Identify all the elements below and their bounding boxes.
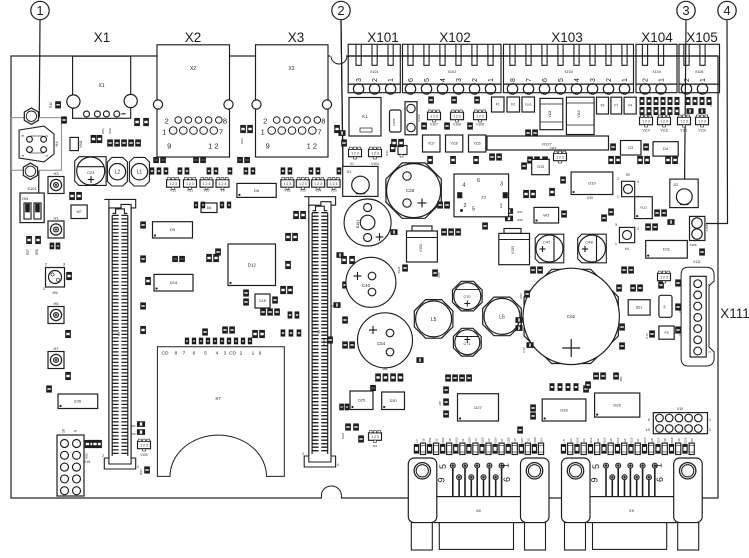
svg-text:X5: X5 [317, 330, 321, 334]
svg-text:R2: R2 [626, 173, 630, 177]
svg-text:X15: X15 [84, 460, 90, 464]
svg-text:V123: V123 [537, 165, 545, 169]
svg-text:D27: D27 [474, 405, 482, 410]
svg-text:1: 1 [488, 78, 495, 82]
svg-text:R103: R103 [454, 437, 458, 445]
svg-text:1 2 3: 1 2 3 [203, 182, 211, 186]
svg-text:D9: D9 [170, 227, 176, 232]
svg-text:5: 5 [591, 464, 601, 469]
svg-text:L6: L6 [499, 314, 505, 320]
svg-text:10: 10 [62, 429, 66, 433]
svg-text:V152: V152 [419, 244, 423, 252]
svg-text:C84: C84 [540, 438, 544, 444]
svg-text:1 2 3: 1 2 3 [169, 182, 177, 186]
svg-text:9: 9 [436, 477, 446, 482]
svg-text:R89: R89 [383, 367, 388, 371]
svg-text:3: 3 [682, 3, 689, 18]
svg-text:W7: W7 [76, 210, 81, 214]
svg-text:C54: C54 [377, 341, 386, 346]
svg-text:R105: R105 [507, 437, 511, 445]
svg-text:C70: C70 [464, 295, 471, 299]
svg-text:C72: C72 [522, 347, 526, 353]
svg-text:1 2 3: 1 2 3 [351, 152, 359, 156]
svg-text:F13: F13 [474, 438, 478, 444]
svg-text:V119: V119 [642, 129, 649, 133]
svg-text:X1: X1 [99, 83, 105, 89]
svg-text:4: 4 [337, 463, 339, 467]
svg-text:L1: L1 [137, 170, 143, 176]
svg-text:V153: V153 [511, 246, 515, 254]
svg-text:F29: F29 [663, 438, 667, 444]
svg-text:2: 2 [102, 454, 104, 458]
svg-text:V118: V118 [660, 129, 667, 133]
svg-text:1: 1 [162, 128, 166, 137]
svg-text:V120: V120 [698, 129, 706, 133]
svg-text:X3: X3 [288, 66, 294, 72]
svg-text:V901: V901 [79, 140, 83, 148]
svg-text:X1: X1 [94, 30, 111, 45]
svg-text:4: 4 [574, 78, 581, 82]
svg-text:X105: X105 [689, 243, 696, 247]
svg-text:1 2: 1 2 [307, 142, 317, 151]
svg-text:F14: F14 [487, 438, 491, 444]
svg-text:C47: C47 [543, 240, 551, 245]
svg-text:X3: X3 [288, 30, 305, 45]
svg-text:7: 7 [317, 128, 321, 137]
svg-text:9: 9 [259, 351, 262, 357]
svg-text:F1: F1 [496, 103, 500, 107]
svg-text:1: 1 [615, 242, 617, 246]
svg-text:V13: V13 [331, 189, 337, 193]
svg-text:R30: R30 [108, 128, 112, 134]
svg-text:H4: H4 [625, 247, 629, 251]
svg-text:V111: V111 [548, 110, 552, 117]
svg-text:3: 3 [456, 78, 463, 82]
svg-text:C28: C28 [406, 188, 415, 193]
svg-text:X103: X103 [551, 30, 583, 45]
svg-text:F28: F28 [650, 438, 654, 444]
svg-text:R109: R109 [533, 437, 537, 445]
svg-text:2: 2 [372, 78, 379, 82]
svg-text:R102: R102 [441, 437, 445, 445]
svg-text:D19: D19 [587, 196, 593, 200]
svg-text:1: 1 [388, 78, 395, 82]
svg-text:V117: V117 [428, 142, 435, 146]
svg-text:1 2: 1 2 [208, 142, 218, 151]
svg-text:W3: W3 [543, 213, 550, 218]
svg-text:1 2 3: 1 2 3 [371, 152, 379, 156]
svg-text:L2: L2 [115, 170, 121, 176]
svg-text:L8: L8 [562, 439, 566, 443]
svg-text:7: 7 [183, 351, 186, 357]
svg-text:V8: V8 [663, 305, 667, 309]
svg-text:X9: X9 [629, 508, 635, 513]
svg-text:1 2 3: 1 2 3 [680, 120, 688, 124]
svg-text:F25: F25 [609, 438, 613, 444]
svg-text:ON: ON [22, 196, 28, 201]
svg-text:1: 1 [252, 351, 255, 357]
svg-text:X111: X111 [693, 260, 701, 264]
svg-text:1: 1 [659, 78, 666, 82]
svg-text:4: 4 [462, 183, 465, 189]
svg-text:R104: R104 [467, 437, 471, 445]
svg-text:7: 7 [526, 78, 533, 82]
svg-text:D25: D25 [358, 399, 365, 403]
svg-text:F15: F15 [422, 438, 426, 444]
svg-text:2: 2 [302, 452, 304, 456]
svg-text:1 2 3: 1 2 3 [430, 115, 438, 119]
svg-text:C40: C40 [362, 283, 371, 288]
svg-text:R57: R57 [26, 249, 30, 255]
svg-text:R126: R126 [417, 114, 421, 122]
svg-text:R125: R125 [341, 432, 345, 439]
svg-text:B101: B101 [356, 220, 360, 228]
svg-text:C71: C71 [464, 342, 471, 346]
svg-text:X103: X103 [564, 70, 572, 74]
svg-text:1: 1 [500, 463, 510, 468]
svg-text:F2: F2 [511, 103, 515, 107]
svg-text:V104: V104 [371, 162, 379, 166]
svg-text:A150: A150 [322, 338, 326, 345]
svg-text:1 2 3: 1 2 3 [642, 120, 650, 124]
svg-text:F11: F11 [461, 438, 465, 443]
svg-text:S1: S1 [347, 169, 353, 174]
svg-text:9: 9 [74, 430, 78, 432]
svg-text:F3: F3 [664, 331, 668, 335]
svg-text:8: 8 [223, 117, 227, 126]
svg-text:X2: X2 [185, 30, 202, 45]
svg-text:1: 1 [617, 195, 619, 199]
svg-text:X105: X105 [686, 30, 718, 45]
svg-text:X104: X104 [641, 30, 673, 45]
svg-text:X8: X8 [476, 508, 482, 513]
svg-text:1 2 3: 1 2 3 [698, 120, 706, 124]
svg-text:1 2 3: 1 2 3 [660, 120, 668, 124]
svg-text:R156: R156 [494, 437, 498, 445]
svg-text:H1: H1 [53, 216, 59, 221]
svg-text:V51: V51 [187, 189, 193, 193]
svg-text:V122: V122 [640, 206, 647, 210]
svg-text:D30: D30 [390, 399, 397, 403]
svg-text:X102: X102 [439, 30, 471, 45]
svg-text:F24: F24 [582, 438, 586, 444]
svg-text:R114: R114 [616, 437, 620, 444]
svg-text:R116: R116 [643, 437, 647, 444]
svg-text:C23: C23 [87, 170, 95, 175]
svg-text:5: 5 [204, 351, 207, 357]
svg-text:X7: X7 [215, 396, 221, 401]
svg-text:6: 6 [408, 78, 415, 82]
svg-text:X105: X105 [695, 70, 703, 74]
svg-text:V1: V1 [350, 162, 354, 166]
svg-text:9: 9 [167, 142, 171, 151]
svg-text:R112: R112 [589, 437, 593, 444]
svg-text:R97: R97 [139, 469, 143, 475]
svg-text:R110: R110 [576, 437, 580, 444]
svg-text:R118: R118 [670, 437, 674, 444]
svg-text:5: 5 [558, 78, 565, 82]
svg-text:1: 1 [36, 3, 43, 18]
svg-text:C90: C90 [130, 432, 136, 436]
svg-text:R15: R15 [49, 102, 53, 108]
svg-text:H6: H6 [53, 301, 59, 306]
svg-text:1 2 3: 1 2 3 [299, 182, 307, 186]
svg-text:F4: F4 [628, 104, 632, 108]
svg-text:F103: F103 [525, 103, 532, 107]
svg-text:F23: F23 [569, 438, 573, 444]
svg-text:1 2 3: 1 2 3 [186, 182, 194, 186]
svg-text:V121: V121 [680, 129, 688, 133]
svg-text:R56: R56 [35, 249, 39, 255]
svg-text:R107: R107 [520, 437, 524, 445]
svg-text:R91: R91 [130, 424, 136, 428]
svg-text:D28: D28 [560, 407, 568, 412]
svg-text:S2: S2 [674, 182, 680, 187]
svg-text:4: 4 [216, 351, 219, 357]
svg-text:1: 1 [700, 78, 707, 82]
svg-text:R115: R115 [630, 437, 634, 444]
svg-text:C62: C62 [567, 314, 576, 319]
svg-text:2: 2 [606, 78, 613, 82]
svg-text:F12: F12 [435, 438, 439, 444]
svg-text:1: 1 [622, 78, 629, 82]
svg-text:D5: D5 [254, 188, 260, 193]
svg-text:F27: F27 [636, 438, 640, 444]
svg-text:R106: R106 [392, 118, 396, 126]
svg-text:8: 8 [510, 78, 517, 82]
svg-text:5: 5 [424, 78, 431, 82]
svg-text:3: 3 [224, 351, 227, 357]
svg-text:X104: X104 [652, 70, 660, 74]
svg-text:D18: D18 [259, 299, 265, 303]
svg-text:X105: X105 [705, 224, 709, 231]
svg-text:R95: R95 [85, 453, 89, 459]
svg-text:D11: D11 [663, 247, 671, 252]
svg-text:R120: R120 [397, 266, 401, 273]
svg-text:E26: E26 [74, 400, 81, 404]
svg-text:V116: V116 [450, 142, 457, 146]
svg-text:D63: D63 [519, 293, 523, 299]
svg-text:X101: X101 [370, 70, 378, 74]
svg-text:D12: D12 [248, 262, 257, 267]
svg-text:C48: C48 [585, 240, 593, 245]
svg-text:X2: X2 [190, 66, 196, 72]
svg-text:V107: V107 [430, 123, 438, 127]
svg-text:R98: R98 [330, 304, 336, 308]
svg-text:V109: V109 [140, 453, 148, 457]
svg-text:1 2 3: 1 2 3 [284, 182, 292, 186]
svg-text:Z3: Z3 [481, 195, 486, 200]
svg-text:V114: V114 [550, 146, 557, 150]
svg-text:B21: B21 [636, 306, 642, 310]
svg-text:F26: F26 [623, 438, 627, 444]
svg-text:1 2 3: 1 2 3 [453, 115, 461, 119]
svg-text:2: 2 [643, 78, 650, 82]
svg-text:4: 4 [137, 465, 139, 469]
svg-text:3: 3 [615, 223, 617, 227]
svg-text:V10: V10 [203, 189, 209, 193]
svg-text:2: 2 [240, 351, 243, 357]
svg-text:2: 2 [637, 227, 639, 231]
svg-text:1 2 3: 1 2 3 [314, 182, 322, 186]
svg-text:K1: K1 [362, 114, 368, 119]
svg-text:1 2 3: 1 2 3 [330, 182, 338, 186]
svg-text:V9: V9 [220, 189, 224, 193]
svg-text:F7: F7 [614, 104, 618, 108]
svg-text:R51: R51 [101, 128, 105, 134]
svg-text:R117: R117 [657, 437, 661, 444]
svg-text:2: 2 [263, 117, 267, 126]
svg-text:F6: F6 [601, 104, 605, 108]
svg-text:6: 6 [193, 351, 196, 357]
svg-text:5: 5 [472, 207, 475, 213]
svg-text:1: 1 [654, 463, 664, 468]
svg-text:R119: R119 [684, 437, 688, 444]
svg-text:R67: R67 [517, 210, 523, 214]
svg-text:2: 2 [337, 3, 344, 18]
svg-text:C87: C87 [438, 400, 442, 405]
svg-text:H5: H5 [52, 290, 58, 295]
svg-text:1 2 3: 1 2 3 [660, 276, 668, 280]
svg-text:C76: C76 [645, 333, 649, 339]
svg-text:H3: H3 [53, 171, 59, 176]
svg-text:1 2 3: 1 2 3 [371, 435, 379, 439]
svg-text:R151: R151 [428, 437, 432, 445]
svg-text:1: 1 [499, 204, 502, 210]
svg-text:2: 2 [165, 117, 169, 126]
svg-text:F22: F22 [596, 438, 600, 444]
svg-text:9: 9 [590, 477, 600, 482]
svg-text:X10: X10 [677, 407, 683, 411]
svg-text:H7: H7 [53, 346, 59, 351]
svg-text:6: 6 [542, 78, 549, 82]
svg-text:V12: V12 [170, 189, 176, 193]
svg-text:R105: R105 [481, 437, 485, 445]
svg-text:D69: D69 [437, 272, 441, 278]
svg-text:10: 10 [646, 427, 651, 432]
svg-text:3: 3 [500, 182, 503, 188]
svg-text:6: 6 [502, 477, 512, 482]
svg-text:F18: F18 [448, 438, 452, 444]
svg-text:H4: H4 [54, 141, 59, 147]
svg-text:V15: V15 [300, 189, 306, 193]
svg-text:1 2 3: 1 2 3 [556, 156, 564, 160]
svg-text:8: 8 [321, 117, 325, 126]
svg-text:L5: L5 [431, 317, 437, 323]
svg-text:8: 8 [175, 351, 178, 357]
svg-text:S101: S101 [27, 186, 37, 191]
svg-text:V14: V14 [315, 189, 321, 193]
svg-text:1 2 3: 1 2 3 [219, 182, 227, 186]
svg-text:CD: CD [162, 351, 169, 357]
svg-text:X102: X102 [448, 70, 456, 74]
svg-text:R65: R65 [619, 376, 623, 381]
svg-text:X101: X101 [367, 30, 399, 45]
svg-text:F10: F10 [526, 438, 530, 444]
svg-text:F17: F17 [500, 438, 504, 444]
svg-text:7: 7 [219, 128, 223, 137]
svg-text:D14: D14 [170, 280, 178, 285]
svg-text:L7: L7 [415, 439, 419, 443]
svg-text:D10: D10 [588, 181, 596, 186]
svg-text:2: 2 [472, 78, 479, 82]
svg-text:C05: C05 [690, 438, 694, 444]
svg-text:X4: X4 [117, 332, 121, 336]
svg-text:2: 2 [617, 177, 619, 181]
svg-text:M4: M4 [373, 444, 377, 448]
svg-text:6: 6 [655, 477, 665, 482]
svg-text:X111: X111 [720, 306, 749, 321]
svg-text:R66: R66 [517, 218, 523, 222]
svg-text:V105: V105 [476, 123, 484, 127]
svg-text:9: 9 [266, 142, 270, 151]
svg-text:2: 2 [463, 203, 466, 209]
svg-text:1: 1 [261, 128, 265, 137]
svg-text:V106: V106 [453, 123, 461, 127]
svg-text:1 2 3: 1 2 3 [476, 115, 484, 119]
svg-text:3: 3 [590, 78, 597, 82]
svg-text:V115: V115 [473, 142, 480, 146]
svg-text:R23: R23 [240, 138, 244, 144]
svg-text:D6: D6 [207, 206, 212, 210]
svg-text:4: 4 [440, 78, 447, 82]
svg-text:3: 3 [637, 180, 639, 184]
svg-text:4: 4 [723, 3, 730, 18]
svg-text:D4: D4 [663, 147, 668, 151]
svg-text:D29: D29 [614, 402, 622, 407]
svg-text:R113: R113 [603, 437, 607, 444]
svg-text:F30: F30 [677, 438, 681, 444]
svg-text:3: 3 [356, 78, 363, 82]
svg-text:V110: V110 [577, 110, 581, 117]
svg-text:D3: D3 [628, 146, 633, 150]
svg-text:2: 2 [684, 78, 691, 82]
svg-text:1 2 3: 1 2 3 [140, 444, 148, 448]
svg-text:CD: CD [229, 351, 236, 357]
svg-text:V13: V13 [709, 101, 713, 107]
svg-text:R33: R33 [385, 150, 389, 156]
svg-text:V16: V16 [284, 189, 290, 193]
svg-text:F16: F16 [513, 438, 517, 444]
svg-text:5: 5 [438, 464, 448, 469]
svg-text:6: 6 [477, 178, 480, 184]
